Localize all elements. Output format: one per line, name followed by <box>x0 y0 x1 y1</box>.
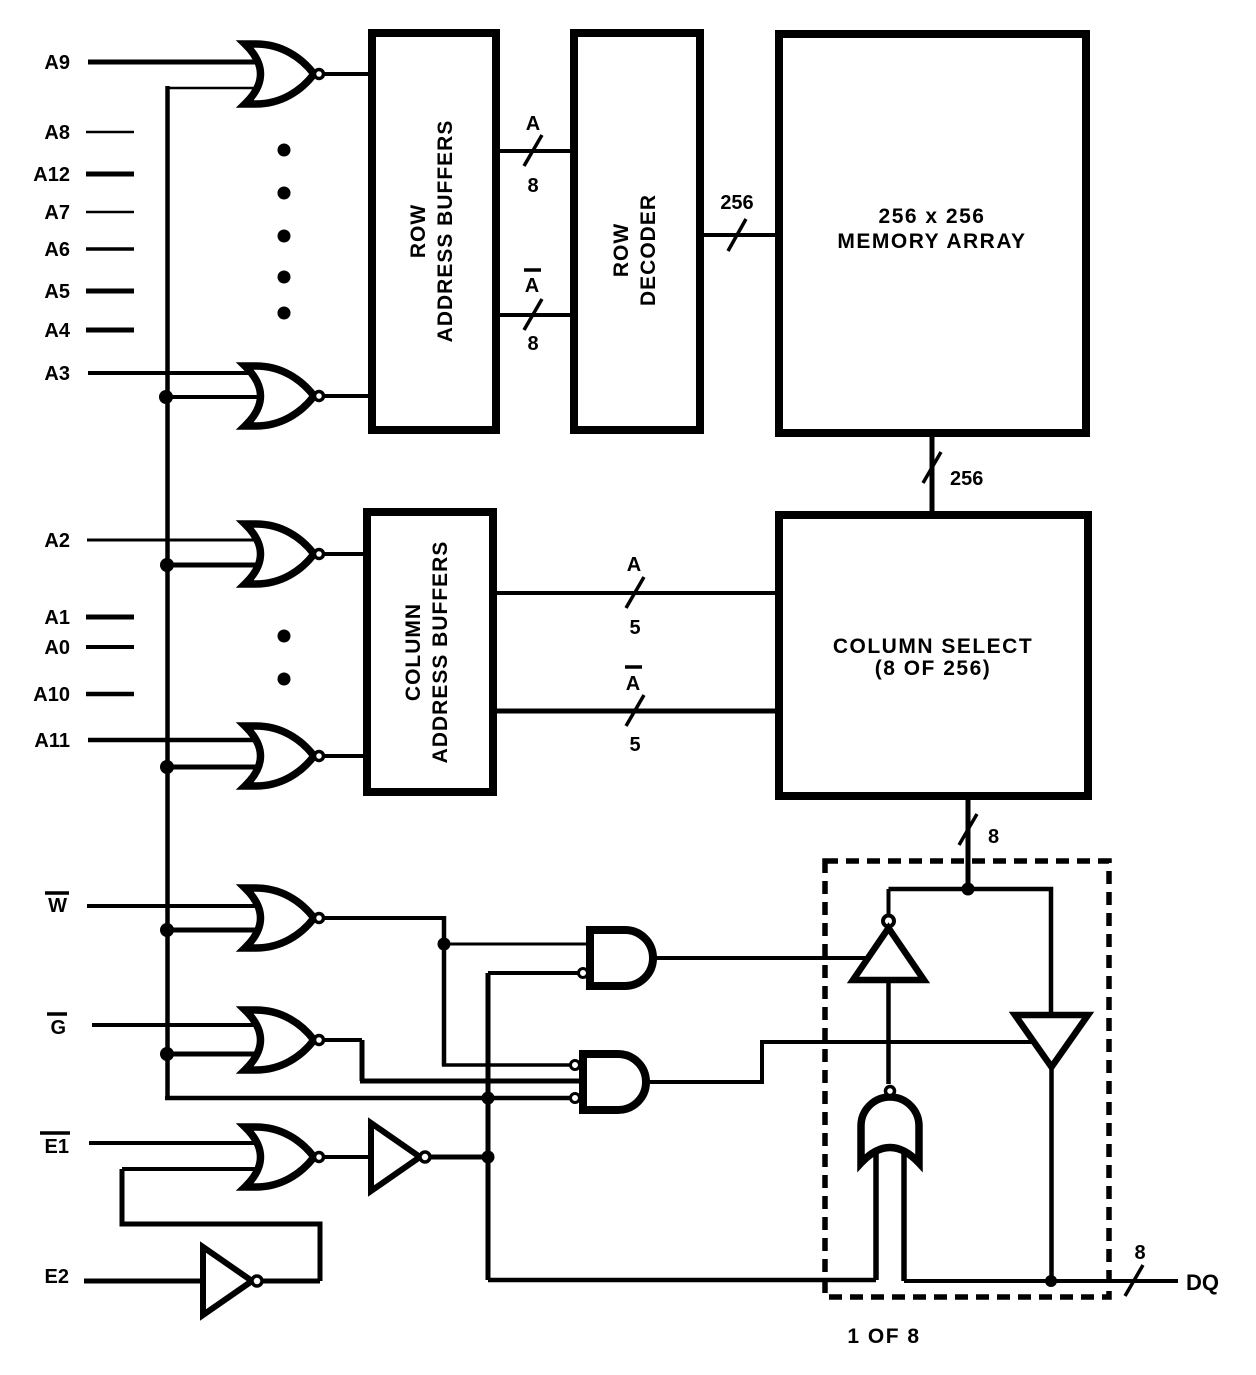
svg-text:E1: E1 <box>45 1136 69 1158</box>
svg-text:MEMORY ARRAY: MEMORY ARRAY <box>837 230 1026 253</box>
svg-text:G: G <box>50 1017 66 1039</box>
svg-text:256: 256 <box>950 468 983 490</box>
svg-text:DQ: DQ <box>1186 1270 1219 1295</box>
svg-text:E2: E2 <box>45 1266 69 1288</box>
svg-text:W: W <box>48 895 67 917</box>
svg-text:A: A <box>525 275 539 297</box>
svg-text:A11: A11 <box>34 730 70 752</box>
svg-text:A1: A1 <box>44 607 70 629</box>
svg-text:(8 OF 256): (8 OF 256) <box>875 657 992 680</box>
svg-text:A5: A5 <box>44 281 70 303</box>
svg-text:8: 8 <box>527 333 538 355</box>
svg-text:1 OF 8: 1 OF 8 <box>847 1325 920 1348</box>
svg-text:A: A <box>526 113 540 135</box>
svg-text:A2: A2 <box>44 530 70 552</box>
svg-text:COLUMN SELECT: COLUMN SELECT <box>833 635 1033 658</box>
svg-text:5: 5 <box>629 734 640 756</box>
svg-text:256 x 256: 256 x 256 <box>879 205 986 228</box>
svg-text:A7: A7 <box>44 202 70 224</box>
svg-text:8: 8 <box>988 826 999 848</box>
svg-text:A6: A6 <box>44 239 70 261</box>
svg-text:A: A <box>626 673 640 695</box>
svg-text:A12: A12 <box>33 164 70 186</box>
svg-text:8: 8 <box>1134 1242 1145 1264</box>
svg-text:A0: A0 <box>44 637 70 659</box>
svg-text:8: 8 <box>527 175 538 197</box>
svg-text:A8: A8 <box>44 122 70 144</box>
svg-text:5: 5 <box>629 617 640 639</box>
svg-text:A4: A4 <box>44 320 70 342</box>
svg-text:A9: A9 <box>44 52 70 74</box>
svg-text:A10: A10 <box>33 684 70 706</box>
svg-text:A: A <box>627 554 641 576</box>
svg-text:A3: A3 <box>44 363 70 385</box>
svg-text:256: 256 <box>720 192 753 214</box>
